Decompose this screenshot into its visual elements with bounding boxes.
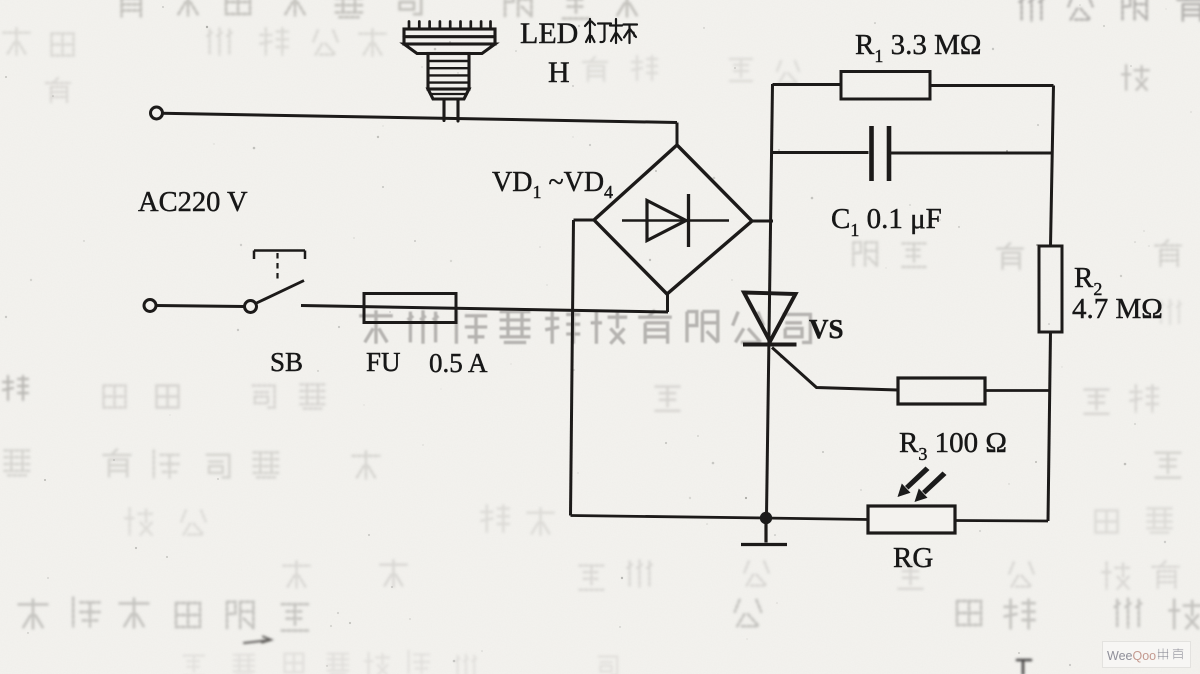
svg-text:RG: RG	[893, 542, 933, 574]
wire: right vertical rail lower	[1048, 332, 1051, 521]
svg-text:VD1 ~VD4: VD1 ~VD4	[492, 167, 613, 202]
lamp H (LED lamp cup)	[404, 22, 495, 122]
wire: capacitor branch left	[772, 151, 869, 154]
wire: switch to fuse to bridge bottom	[301, 306, 668, 313]
node: junction dot on bottom rail	[760, 512, 772, 524]
photoresistor RG	[868, 506, 955, 533]
fuse FU	[364, 294, 456, 323]
wire: capacitor branch right	[891, 152, 1053, 155]
svg-text:H: H	[548, 56, 570, 89]
wire: right vertical rail upper	[1051, 86, 1054, 247]
wire: stub from top rail down to bridge top corner	[676, 123, 679, 147]
bridge rectifier VD1~VD4 (diamond)	[594, 145, 752, 294]
wire: main vertical (DC plus)	[767, 84, 773, 516]
svg-text:0.5 A: 0.5 A	[429, 348, 488, 378]
svg-text:FU: FU	[366, 347, 401, 377]
resistor R3	[898, 378, 985, 404]
wire: VS gate lead down to R3	[772, 348, 898, 391]
svg-text:C1 0.1 μF: C1 0.1 μF	[831, 203, 942, 240]
wire: bridge left corner stub	[574, 219, 595, 222]
ground	[741, 518, 787, 545]
wire: stub up to bridge bottom corner	[666, 293, 669, 312]
svg-text:SB: SB	[270, 347, 303, 377]
svg-text:4.7 MΩ: 4.7 MΩ	[1072, 293, 1163, 325]
wire: R3 to right rail	[985, 389, 1049, 392]
wire: bridge right corner stub to main vertical	[752, 220, 773, 223]
light arrows onto RG	[898, 467, 947, 503]
wire: left vertical branch (DC minus)	[571, 220, 574, 516]
svg-text:VS: VS	[809, 314, 844, 344]
wire: bottom rail right section	[955, 519, 1048, 522]
svg-text:AC220 V: AC220 V	[138, 187, 248, 218]
wire: top rail from terminal to bridge	[162, 113, 677, 122]
wire: bottom rail left section	[571, 516, 869, 520]
node: top AC input terminal	[151, 107, 163, 119]
svg-text:R3 100 Ω: R3 100 Ω	[899, 427, 1007, 464]
wire: terminal to switch	[156, 306, 245, 307]
capacitor C1 plates	[872, 126, 890, 181]
HTML text labels	[0, 0, 1200, 1]
diode symbol inside bridge	[622, 194, 729, 247]
resistor R2	[1039, 246, 1062, 332]
switch SB (pushbutton, open blade)	[245, 251, 306, 313]
thyristor VS (triangle + cathode bar)	[743, 293, 797, 345]
svg-text:LED: LED	[520, 17, 578, 50]
node: bottom AC input terminal	[144, 300, 156, 312]
wire: top wire through R1	[773, 85, 1054, 86]
svg-text:R1 3.3 MΩ: R1 3.3 MΩ	[855, 29, 981, 66]
svg-text:WeeQoo: WeeQoo	[1107, 649, 1156, 663]
resistor R1	[841, 72, 930, 100]
